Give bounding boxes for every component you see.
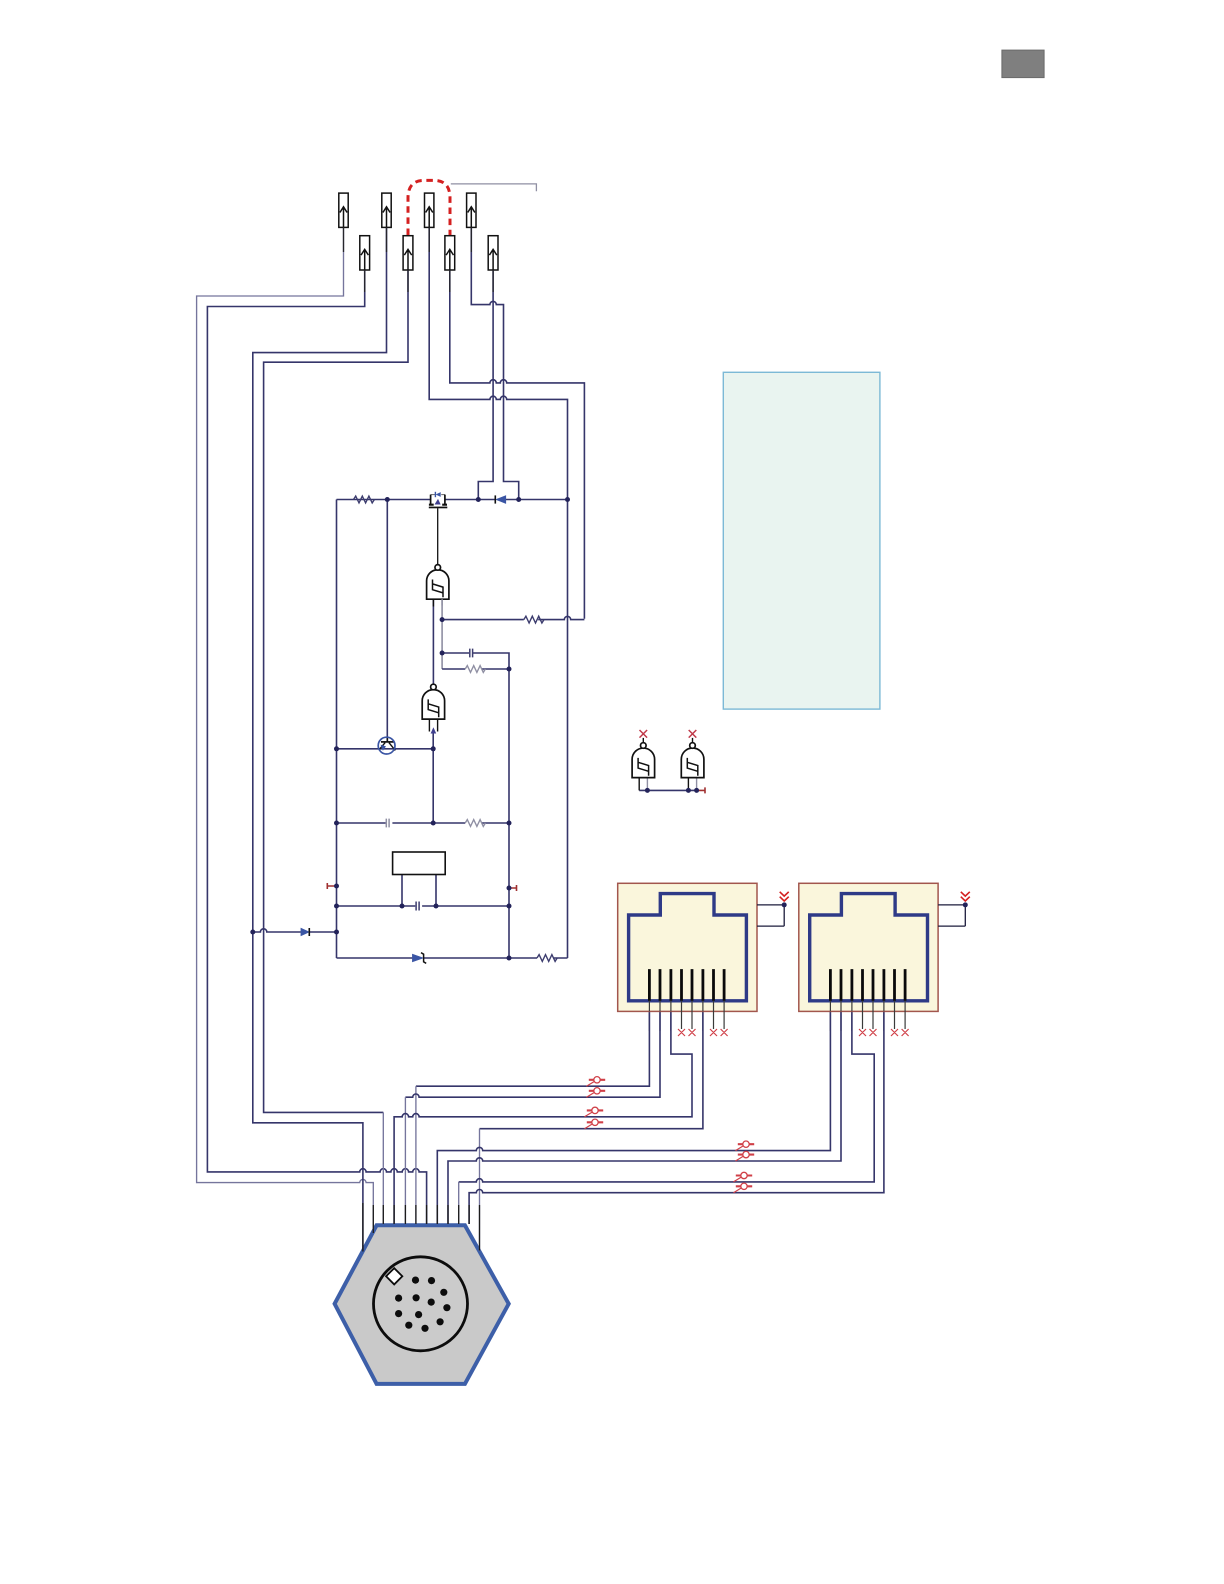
junction gateB leg1 [686, 788, 691, 793]
wire crystal cap row [337, 905, 510, 907]
DOTS-LAYER [250, 497, 968, 961]
wire net G from connector P4 to diode anode [471, 227, 518, 499]
wire gate2 net down [432, 749, 434, 823]
wire net D vertical to hex pin3 [382, 1112, 384, 1224]
hex pin stubs (black) [363, 1203, 480, 1252]
no-connect tick right [509, 885, 517, 891]
J1 keying notch [386, 1268, 402, 1284]
power stub spare gates [697, 787, 705, 793]
J3 pins 1-8 [830, 969, 905, 1001]
wire gate1 input left to gate2 output [432, 599, 434, 684]
wire net C from connector P2 to hex pin1 [253, 227, 387, 1250]
WIRES-LAYER [197, 227, 884, 1250]
ferrite bead FB8 [734, 1183, 753, 1193]
connector pin P8 [488, 236, 498, 270]
wire gate1 input right down to RC [441, 599, 443, 669]
gate U1B input arrow [431, 727, 437, 733]
wire RJ1 pin3 to hex pin4 [394, 1011, 692, 1224]
connector pin P4 [467, 193, 476, 227]
wire RJ2 pin1 to hex pin8 [437, 1011, 830, 1224]
wire RC bus down [508, 669, 510, 958]
no-connect X above U2A [640, 730, 648, 738]
wire transistor row [337, 748, 434, 750]
J2 shield stubs [757, 905, 784, 926]
note box [723, 372, 880, 709]
junction diode D1 anode [516, 497, 521, 502]
wire gate drive node [386, 500, 388, 742]
J3 shield chevrons [961, 892, 970, 901]
highlight dashed bracket over P6-P7 [408, 180, 450, 235]
hex circular connector J1 [335, 1225, 509, 1384]
junction at gate-drive node [385, 497, 390, 502]
wire cap C1 row [442, 653, 509, 669]
wire crystal legs [402, 875, 436, 907]
wire net A from connector P1 to hex pin2 [197, 227, 374, 1233]
wire res R3 row [442, 668, 509, 670]
wire RJ2 pin3 vertical [458, 1182, 460, 1224]
no-connect X above U2B [689, 730, 697, 738]
resistor R5 [537, 955, 557, 962]
wire net F from connector P7 to feedback bus [450, 270, 585, 619]
RJ pin stubs black [649, 1011, 884, 1031]
junction diode D1 cathode [476, 497, 481, 502]
wire net E from connector P3 to right bus [429, 227, 567, 958]
J2 no-connect X pins 4,5,7,8 [678, 1029, 728, 1036]
resistor R1 [354, 496, 375, 503]
ferrite bead FB3 [585, 1107, 604, 1117]
resistor R4 [465, 820, 485, 827]
ferrite bead FB7 [734, 1172, 753, 1182]
transistor Q2 [378, 737, 395, 754]
junction RC right [507, 667, 512, 672]
capacitor C1 [470, 649, 473, 658]
wire row at MOSFET level [337, 499, 568, 501]
resistor R3 [465, 666, 485, 673]
diode D2 [301, 928, 309, 936]
RJ45 jack J3 [799, 883, 970, 1036]
wire gate2 input stem [432, 731, 434, 749]
capacitor C2 [386, 819, 389, 828]
capacitor C3 [416, 902, 419, 911]
resistor R2 [524, 616, 544, 623]
connector pin P2 [382, 193, 391, 227]
wire net H from connector P8 to diode cathode [478, 270, 493, 500]
junction bus252 row932 [250, 930, 255, 935]
wire net D from connector P6 to hex pin3 [264, 270, 408, 1112]
wire left rail [336, 500, 338, 959]
ferrite bead FB5 [736, 1141, 755, 1151]
wire RJ2 pin2 to hex pin9 [448, 1011, 841, 1224]
connector pin P3 [425, 193, 434, 227]
ferrite bead FB2 [587, 1088, 606, 1098]
wire RJ1 pin6 to hex pin12 [480, 1011, 703, 1128]
schmitt gate U1A (inverter to MOSFET gate) [427, 565, 449, 607]
junction cap C1 left [440, 651, 445, 656]
junction J3 shield [963, 902, 968, 907]
spare schmitt gate U2A [632, 738, 655, 778]
MOSFET Q1 [429, 492, 448, 509]
wire RJ2 pin3 to hex pin10 [459, 1011, 875, 1182]
diode D1 [495, 495, 506, 503]
wire RJ1 pin1 to hex pin6 [416, 1011, 650, 1086]
wire diode D2 row [253, 929, 337, 932]
sheet tab marker [1002, 50, 1044, 78]
ferrite bead FB4 [585, 1119, 604, 1129]
connector pin P5 [360, 236, 370, 270]
ferrite bead FB1 [587, 1077, 606, 1087]
wire net B from connector P5 to hex pin7 [207, 270, 426, 1224]
wire RC row2 [337, 822, 510, 824]
connector pin P7 [445, 236, 455, 270]
wire RJ2 pin6 to hex pin11 [469, 1011, 884, 1224]
junction row958 [507, 956, 512, 961]
junction diode D2 row932 [334, 930, 339, 935]
junction crystal row left [334, 904, 339, 909]
J3 shield stubs [938, 905, 965, 926]
crystal Y1 body [393, 852, 446, 875]
junction right bus row500 [565, 497, 570, 502]
junction crystal leg1 [400, 904, 405, 909]
junction left rail row823 [334, 821, 339, 826]
junction right row823 [507, 821, 512, 826]
junction gateB leg2 [694, 788, 699, 793]
connector pin P1 [339, 193, 348, 227]
junction left rail row748 [334, 746, 339, 751]
RJ45 jack J2 [618, 883, 789, 1036]
junction crystal row right [507, 904, 512, 909]
wire RJ1 pin2 vertical [404, 1097, 406, 1224]
schmitt gate U1B [422, 684, 444, 731]
wire spare gate common [639, 789, 696, 791]
junction right tick [507, 886, 512, 891]
wire RJ1 pin6 vertical [479, 1129, 481, 1251]
junction gate1 input row619 [440, 617, 445, 622]
junction gateA leg [645, 788, 650, 793]
COMPONENTS-LAYER [301, 180, 705, 963]
junction mid row823 [431, 821, 436, 826]
ferrite bead FB6 [736, 1151, 755, 1161]
wire zener row [337, 957, 568, 959]
wire RJ1 pin2 to hex pin5 [405, 1011, 660, 1097]
spare schmitt gate U2B [681, 738, 704, 778]
connector stem stubs (black) [344, 227, 494, 292]
dangling gray wire from bracket [451, 184, 537, 191]
junction gate2 input row748 [431, 746, 436, 751]
wire RC feedback row [442, 616, 584, 619]
J2 pins 1-8 [649, 969, 724, 1001]
J3 no-connect X pins 4,5,7,8 [859, 1029, 909, 1036]
no-connect tick left [327, 883, 336, 889]
connector pin P6 [403, 236, 413, 270]
junction J2 shield [782, 902, 787, 907]
zener D3 [412, 953, 426, 964]
wire gate1 output to mosfet gate [437, 508, 439, 564]
J2 shield chevrons [780, 892, 789, 901]
J1 pin dots [395, 1277, 451, 1332]
wire spare gate legs [639, 778, 688, 791]
junction crystal leg2 [434, 904, 439, 909]
wire RJ1 pin1 vertical [415, 1086, 417, 1224]
junction left tick [334, 884, 339, 889]
